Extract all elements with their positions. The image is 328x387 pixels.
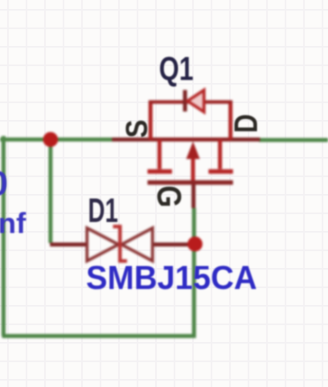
svg-text:G: G [150, 186, 188, 208]
svg-text:D: D [228, 114, 264, 133]
svg-text:Q1: Q1 [159, 50, 194, 87]
svg-text:S: S [119, 120, 154, 139]
svg-text:D1: D1 [88, 192, 118, 230]
svg-text:0: 0 [0, 165, 8, 203]
svg-text:SMBJ15CA: SMBJ15CA [86, 259, 257, 296]
svg-text:nf: nf [0, 208, 26, 240]
